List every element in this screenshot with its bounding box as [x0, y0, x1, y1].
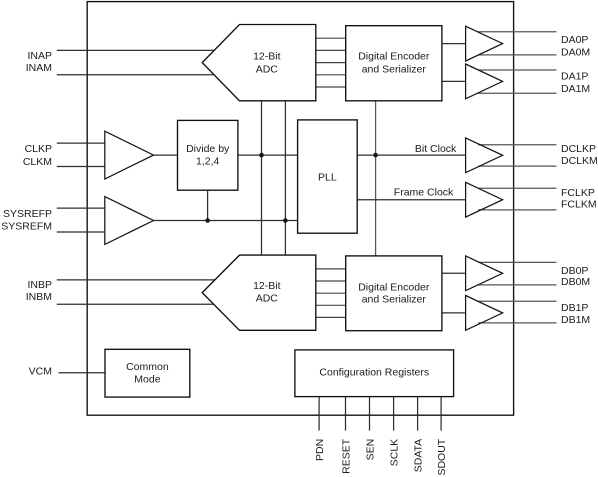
pin stub PDN — [318, 397, 320, 431]
svg-text:Divide by: Divide by — [186, 143, 230, 155]
svg-text:INBP: INBP — [27, 279, 52, 291]
svg-text:Frame Clock: Frame Clock — [394, 187, 454, 199]
svg-text:PLL: PLL — [318, 171, 337, 183]
svg-text:SEN: SEN — [364, 439, 376, 461]
bus ADC B to encoder B line 5 — [316, 316, 346, 318]
wire SYSREFP input — [57, 207, 105, 209]
svg-text:PDN: PDN — [314, 439, 326, 461]
wire DCLKP output — [478, 144, 557, 146]
svg-text:Common: Common — [126, 361, 169, 373]
bus ADC B to encoder B line 3 — [316, 292, 346, 294]
pin stub SCLK — [393, 397, 395, 431]
bus ADC A to encoder A line 2 — [316, 49, 346, 51]
svg-text:CLKP: CLKP — [25, 143, 52, 155]
junction dot serializer bit clock — [373, 153, 378, 158]
svg-text:SYSREFM: SYSREFM — [1, 221, 52, 233]
svg-text:DB1M: DB1M — [561, 314, 590, 326]
wire SYSREFM input — [57, 231, 105, 233]
clock input buffer — [105, 131, 154, 179]
outer chip boundary box — [87, 2, 513, 416]
svg-text:VCM: VCM — [29, 366, 52, 378]
wire FCLKP output — [478, 187, 557, 189]
wire DA0M output — [478, 54, 557, 56]
wire VCM input — [59, 372, 106, 374]
svg-text:SCLK: SCLK — [388, 439, 400, 466]
wire FCLKM output — [478, 209, 557, 211]
wire INAM input — [57, 74, 214, 76]
digital encoder and serializer B block — [346, 256, 442, 331]
DA1 output buffer — [466, 64, 503, 99]
wire ADC sample clock line B — [284, 101, 286, 255]
bus ADC A to encoder A line 5 — [316, 86, 346, 88]
svg-text:RESET: RESET — [340, 438, 352, 474]
12-Bit ADC B block — [202, 255, 316, 330]
wire encoder B to DB1 buffer — [442, 312, 466, 314]
wire DA1P output — [478, 69, 557, 71]
svg-text:INAP: INAP — [27, 50, 52, 62]
wire encoder B to DB0 buffer — [442, 272, 466, 274]
svg-text:FCLKM: FCLKM — [561, 199, 597, 211]
svg-text:12-Bit: 12-Bit — [253, 50, 281, 62]
svg-text:INAM: INAM — [26, 62, 52, 74]
DB0 output buffer — [466, 256, 503, 291]
svg-text:SDATA: SDATA — [412, 439, 424, 472]
wire DA1M output — [478, 92, 557, 94]
wire bit clock — [357, 154, 465, 156]
bus ADC A to encoder A line 4 — [316, 74, 346, 76]
svg-text:and Serializer: and Serializer — [362, 294, 427, 306]
common mode block — [105, 349, 190, 397]
DA0 output buffer — [466, 26, 503, 61]
PLL block — [298, 120, 358, 233]
svg-text:Configuration Registers: Configuration Registers — [319, 367, 429, 379]
svg-text:DB0P: DB0P — [561, 265, 588, 277]
svg-text:DA1P: DA1P — [561, 71, 588, 83]
bus ADC A to encoder A line 3 — [316, 62, 346, 64]
bus ADC A to encoder A line 1 — [316, 37, 346, 39]
wire frame clock — [357, 199, 465, 201]
svg-text:CLKM: CLKM — [23, 156, 52, 168]
wire CLKM input — [57, 166, 105, 168]
12-Bit ADC A block — [202, 25, 316, 101]
svg-text:Digital Encoder: Digital Encoder — [358, 50, 430, 62]
digital encoder and serializer A block — [346, 26, 442, 101]
wire DCLKM output — [478, 165, 557, 167]
svg-text:12-Bit: 12-Bit — [253, 280, 281, 292]
svg-text:DB1P: DB1P — [561, 302, 588, 314]
svg-text:ADC: ADC — [256, 64, 279, 76]
wire encoder A to DA0 buffer — [442, 43, 466, 45]
svg-text:DCLKP: DCLKP — [561, 143, 596, 155]
svg-text:ADC: ADC — [256, 292, 279, 304]
bus ADC B to encoder B line 1 — [316, 268, 346, 270]
svg-text:DB0M: DB0M — [561, 276, 590, 288]
svg-text:DA0M: DA0M — [561, 46, 590, 58]
wire CLKP input — [57, 142, 105, 144]
wire ADC sample clock line A — [261, 101, 263, 255]
wire divider bottom tap — [207, 190, 209, 220]
svg-text:FCLKP: FCLKP — [561, 187, 595, 199]
wire clock buffer to divider — [154, 154, 178, 156]
bus ADC B to encoder B line 4 — [316, 304, 346, 306]
sysref input buffer — [105, 197, 154, 245]
svg-text:Bit Clock: Bit Clock — [415, 143, 457, 155]
wire encoder A to DA1 buffer — [442, 80, 466, 82]
junction dot divider sysref tap — [205, 218, 210, 223]
svg-text:DA0P: DA0P — [561, 34, 588, 46]
DB1 output buffer — [466, 296, 503, 331]
svg-text:INBM: INBM — [26, 291, 52, 303]
junction dot sysref line B — [283, 218, 288, 223]
wire divider to PLL — [238, 154, 298, 156]
pin stub SDOUT — [440, 397, 442, 431]
wire DA0P output — [478, 31, 557, 33]
wire sysref buffer to PLL — [154, 220, 298, 222]
wire DB1P output — [478, 300, 557, 302]
wire INAP input — [57, 49, 214, 51]
svg-text:SDOUT: SDOUT — [436, 438, 448, 475]
divide by 1,2,4 block — [178, 120, 238, 190]
FCLK output buffer — [466, 182, 503, 217]
svg-text:DA1M: DA1M — [561, 83, 590, 95]
svg-text:and Serializer: and Serializer — [362, 64, 427, 76]
wire DB1M output — [478, 322, 557, 324]
svg-text:DCLKM: DCLKM — [561, 155, 598, 167]
svg-text:Mode: Mode — [134, 373, 160, 385]
bus ADC B to encoder B line 2 — [316, 280, 346, 282]
svg-text:SYSREFP: SYSREFP — [3, 208, 52, 220]
wire serializer link — [375, 101, 377, 256]
wire DB0M output — [478, 284, 557, 286]
svg-text:Digital Encoder: Digital Encoder — [358, 281, 430, 293]
pin stub SEN — [369, 397, 371, 431]
svg-text:1,2,4: 1,2,4 — [196, 155, 220, 167]
pin stub SDATA — [417, 397, 419, 431]
pin stub RESET — [345, 397, 347, 431]
junction dot divider clock — [259, 153, 264, 158]
DCLK output buffer — [466, 138, 503, 173]
wire INBP input — [57, 279, 215, 281]
wire INBM input — [57, 303, 214, 305]
wire DB0P output — [478, 261, 557, 263]
configuration registers block — [295, 350, 454, 397]
